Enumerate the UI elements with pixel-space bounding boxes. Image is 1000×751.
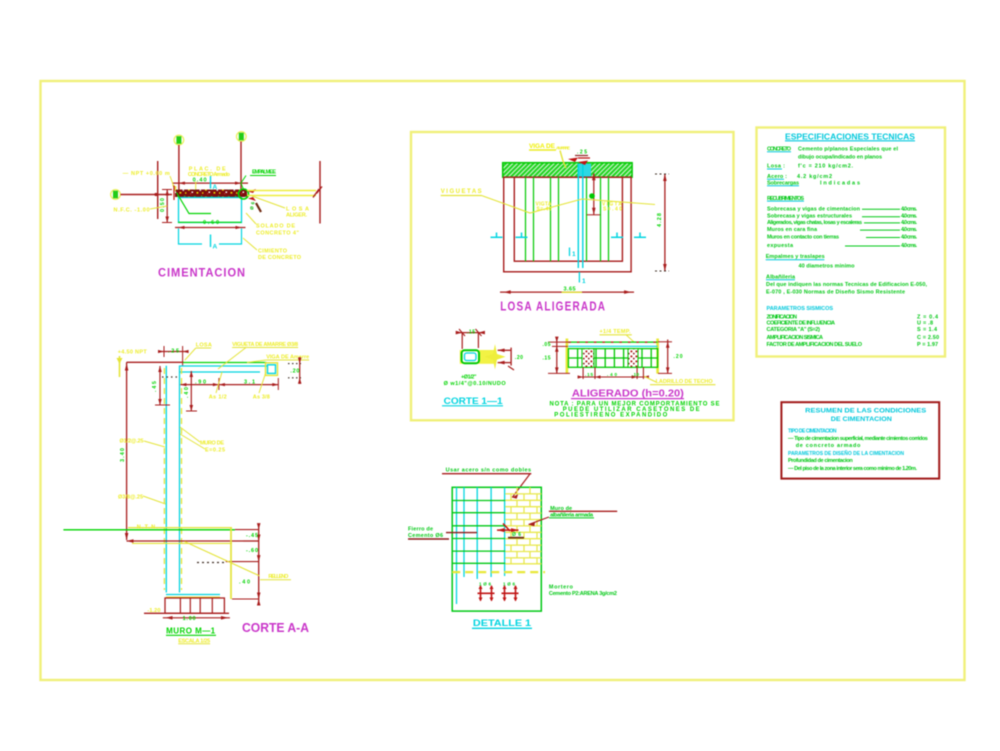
svg-text:1Ø6: 1Ø6 [503,582,515,587]
svg-text:.15: .15 [543,356,551,362]
footing outline with hatch [165,598,224,613]
svg-text:Profundidad de cimentacion: Profundidad de cimentacion [788,458,853,464]
svg-text:CONCRETO 4": CONCRETO 4" [256,231,299,237]
extension line right [319,161,321,224]
arrows at slab top (red) [568,158,578,163]
right level dimension column [258,528,260,602]
svg-text:Cemento p/planos Especiales: Cemento p/planos Especiales que el [798,147,898,153]
svg-text:1.00: 1.00 [183,616,196,622]
dots dashed beam bottom [162,376,180,378]
svg-text:1: 1 [582,278,586,285]
relleno diagonal (yellow) [185,542,260,576]
footing body (cyan) [179,198,242,223]
section tick marks (cyan) [491,233,647,238]
svg-text:VIGA DE: VIGA DE [529,143,556,150]
svg-text:DETALLE 1: DETALLE 1 [473,618,532,629]
svg-text:CORTE A-A: CORTE A-A [242,621,309,635]
svg-text:Mortero: Mortero [549,585,574,591]
svg-text:.45: .45 [152,381,158,392]
svg-text:Usar acero s/n como dobles: Usar acero s/n como dobles [446,468,531,474]
svg-text:A: A [213,244,218,251]
svg-text:+Ø1/2": +Ø1/2" [461,375,477,381]
losa detail frame (yellow) [411,132,734,420]
yellow star splice symbol [485,344,506,370]
svg-text:Ø w1/4"@0.10/NUDO: Ø w1/4"@0.10/NUDO [444,381,507,387]
svg-text:1Ø6: 1Ø6 [479,582,491,587]
right dimension (red) [664,174,666,271]
beam section at slab end [266,363,278,376]
svg-text:LOSA ALIGERADA: LOSA ALIGERADA [500,299,606,313]
svg-text:Fierro de: Fierro de [408,527,433,533]
svg-text:expuesta: expuesta [767,243,794,249]
grid bubble axis B (left) [111,190,121,200]
resumen frame (dark red) [781,402,939,478]
center dimension (red) [593,173,595,215]
brick wall (yellow) [505,487,541,564]
svg-text:.15: .15 [585,372,593,377]
right bracket dimension (red) [498,349,512,351]
svg-text:Muros en contacto con tierras: Muros en contacto con tierras [767,235,839,241]
wall width dimension [158,351,188,353]
svg-text:.20: .20 [674,354,683,360]
top hatched band (green) [503,163,632,178]
svg-text:ESPECIFICACIONES TECNICAS: ESPECIFICACIONES TECNICAS [785,132,916,141]
bottom dimension line [175,227,246,229]
svg-text:— NPT +0.00 m: — NPT +0.00 m [123,171,170,177]
wall cyan lines [165,366,167,593]
grid line from axis B [121,194,173,196]
slab lines extending right (yellow) [247,190,316,192]
horizontal dimension under slab [180,384,278,386]
wall arrows right of footing [248,189,256,193]
svg-text:4.0 cms.: 4.0 cms. [901,206,917,212]
svg-text:0.40: 0.40 [193,178,207,184]
slab cyan lines [179,365,267,367]
page border frame [41,81,965,680]
svg-text:RELLENO: RELLENO [268,574,289,580]
slab inner outline (red) [514,177,622,261]
extension line left [157,161,159,219]
svg-text:S=.40: S=.40 [537,207,552,213]
wall face labels (yellow) [180,427,200,442]
footing hatched top strip [175,190,247,198]
section line 1-1 (cyan) [577,164,579,269]
svg-text:S = 1.4: S = 1.4 [917,327,938,333]
svg-text:.40: .40 [239,580,250,586]
level flag symbol (yellow) [119,356,121,377]
svg-text:-.45: -.45 [246,533,258,539]
slab thickness detail right [288,363,301,365]
footing base line [144,612,229,614]
anchor detail center (red) [497,529,519,531]
svg-text:TIPO DE CIMENTACION: TIPO DE CIMENTACION [788,429,837,435]
anchor bar (dark red) [256,203,261,212]
svg-text:S=.40: S=.40 [603,207,622,213]
svg-text:N.T.N.: N.T.N. [137,524,158,530]
svg-text:-.60: -.60 [246,548,258,554]
grid bubble axis 2 [237,132,247,142]
leader wave (yellow) [482,196,656,214]
svg-text:PARAMETROS SISMICOS: PARAMETROS SISMICOS [767,306,834,312]
yellow vertical right of wall [230,528,232,599]
svg-text:Ø1/2@.25: Ø1/2@.25 [120,439,144,445]
svg-text:4.0 cms.: 4.0 cms. [901,243,917,249]
beam depth dimension v2 [190,371,192,411]
svg-text:Muros en cara fina: Muros en cara fina [767,227,818,233]
svg-text:+4.50 NPT: +4.50 NPT [118,350,148,356]
svg-text:Ø6: Ø6 [249,201,255,210]
svg-text:Sobrecasa y vigas estructurale: Sobrecasa y vigas estructurales [767,214,852,220]
mesh horizontals (green) [452,500,505,502]
svg-text:— Tipo de cimentacion superfic: — Tipo de cimentacion superficial, media… [788,436,928,442]
svg-text:.05: .05 [543,342,551,348]
svg-text:— Del piso de la zona interior: — Del piso de la zona interior sera como… [788,466,917,472]
cyan band segment in hatch [578,164,592,177]
svg-text:E=0.25: E=0.25 [205,448,225,454]
svg-text:AMPLIFICACION SISMICA: AMPLIFICACION SISMICA [767,335,824,341]
svg-text:ALIGER.: ALIGER. [286,213,307,219]
mesh verticals (cyan) [456,487,458,604]
svg-text:DE CONCRETO: DE CONCRETO [258,255,302,261]
svg-text:MURO M—1: MURO M—1 [166,627,216,636]
svg-text:4.0 cms.: 4.0 cms. [901,214,917,220]
left vertical dimension [166,190,168,223]
svg-text:FACTOR DE AMPLIFICACION DEL SU: FACTOR DE AMPLIFICACION DEL SUELO [767,342,863,348]
grid line from axis 2 [240,142,242,193]
svg-text:4.0 cms.: 4.0 cms. [901,227,917,233]
svg-text:.15: .15 [467,329,475,335]
svg-text:ALIGERADO (h=0.20): ALIGERADO (h=0.20) [572,389,684,400]
svg-text:CATEGORIA "A" (S=2): CATEGORIA "A" (S=2) [767,327,821,333]
section mark A top [210,176,212,189]
svg-text:As 3/8: As 3/8 [253,395,270,401]
svg-text:CIMIENTO: CIMIENTO [258,249,288,255]
end bars (yellow) [566,339,569,374]
svg-text:AMARRE: AMARRE [556,146,570,151]
svg-text:3.65: 3.65 [564,286,576,292]
section mark A bottom [210,235,212,248]
svg-text:COEFICIENTE DE INFLUENCIA: COEFICIENTE DE INFLUENCIA [767,320,836,326]
svg-text:Ø3/8@.25: Ø3/8@.25 [118,495,143,501]
svg-text:.40: .40 [607,372,617,377]
svg-text:f'c = 210 kg/cm2.: f'c = 210 kg/cm2. [798,164,853,170]
corte 1-1 top dimension [457,332,484,334]
bottom width dimensions [578,376,648,378]
leader to LOSA label [252,196,285,208]
brick joists (speckled) [582,349,594,368]
beam depth dimension v1 [159,366,161,405]
specifications frame (yellow) [757,128,946,357]
section bracket below footing (cyan) [179,229,203,245]
joist lines (green) [525,177,527,261]
svg-text:0.50: 0.50 [160,198,166,212]
svg-text:As 1/2: As 1/2 [209,395,227,401]
detalle frame (green) [452,487,541,611]
slab outer outline (red) [504,177,631,272]
svg-text:Del que indiquen las normas Te: Del que indiquen las normas Tecnicas de … [766,282,927,288]
lean concrete slope line (green) [177,193,212,214]
svg-text:de concreto armado: de concreto armado [796,443,861,449]
yellow line above ground [128,527,232,529]
dashed yellow line [452,571,545,573]
top corner red line [127,361,184,363]
svg-text:-1.20: -1.20 [147,608,160,614]
ground line NTN (green) [63,529,235,531]
svg-text:RESUMEN DE LAS CONDICIONES: RESUMEN DE LAS CONDICIONES [805,408,927,415]
svg-text:.40: .40 [184,387,190,398]
svg-text:CIMENTACION: CIMENTACION [158,268,246,280]
leaders to As labels (yellow) [216,372,222,393]
grid bubble axis 1 [174,135,184,145]
svg-text:4.0 cms.: 4.0 cms. [901,235,917,241]
svg-text:Sobrecasa y vigas de cimentaci: Sobrecasa y vigas de cimentacion [767,206,861,212]
bottom dimension (red) [500,291,634,293]
grid line from axis 1 [178,145,180,192]
right depth dimension [667,340,669,374]
svg-text:VIGUETAS: VIGUETAS [441,189,482,195]
svg-text:3.40: 3.40 [120,448,126,462]
svg-text:dibujo ocupa/indicado en plano: dibujo ocupa/indicado en planos [798,154,882,160]
svg-text:.25: .25 [577,150,587,156]
svg-text:A: A [213,184,218,191]
svg-text:.20: .20 [515,355,523,361]
label ladrillo hueco (yellow) [644,376,656,382]
svg-text:MURO DE: MURO DE [200,441,224,447]
svg-text:PARAMETROS DE DISEÑO DE LA CIM: PARAMETROS DE DISEÑO DE LA CIMENTACION [788,450,904,457]
svg-text:C = 2.50: C = 2.50 [917,335,939,341]
svg-text:E-070 , E-030 Normas de Diseño: E-070 , E-030 Normas de Diseño Sismo Res… [766,289,905,295]
svg-text:40 diametros minimo: 40 diametros minimo [799,263,856,269]
dot dash footing level [197,562,226,564]
break mark [313,187,322,198]
svg-text:U = .8: U = .8 [917,320,933,326]
svg-text:4.2 kg/cm2: 4.2 kg/cm2 [797,174,832,180]
wall rebar dashed (yellow) [163,368,165,590]
footing bottom rebar line [178,221,242,223]
svg-text:SOLADO DE: SOLADO DE [256,224,295,230]
svg-text:EMPALME E: EMPALME E [252,170,276,176]
svg-text:P = 1.97: P = 1.97 [917,342,938,348]
slab top line (green) [183,362,267,364]
svg-text:Indicadas: Indicadas [820,180,860,186]
section label 1 top (cyan) [569,248,571,257]
svg-text:N.F.C. -1.00: N.F.C. -1.00 [114,208,150,214]
svg-text:DE CIMENTACION: DE CIMENTACION [831,416,892,423]
corte 1-1 extension lines [461,333,463,349]
svg-text:1: 1 [572,251,576,258]
svg-text:Aligerados, vigas chatas, losa: Aligerados, vigas chatas, losas y escale… [767,220,862,226]
top dimension line [172,182,248,184]
svg-text:3.1: 3.1 [244,380,255,386]
svg-text:.10: .10 [632,372,639,377]
red level line [127,540,259,542]
svg-text:0.60: 0.60 [203,220,219,226]
svg-text:LADRILLO DE TECHO: LADRILLO DE TECHO [656,379,714,385]
svg-text:POLIESTIRENO EXPANDIDO: POLIESTIRENO EXPANDIDO [554,412,667,418]
joist section box (green) [462,350,479,363]
casetones grid (green) [568,349,657,368]
column circle (green) [239,189,249,199]
svg-text:Cemento P2:ARENA 3g/cm2: Cemento P2:ARENA 3g/cm2 [549,591,617,597]
footing width dimension [163,617,230,619]
dowel symbols (red) [478,586,519,601]
slab topping lines [568,341,657,343]
left depth dimension [556,340,558,374]
long left dimension line [126,362,128,540]
svg-text:.20: .20 [290,369,299,375]
svg-text:+1/4 TEMP.: +1/4 TEMP. [600,329,631,335]
svg-text:CORTE 1—1: CORTE 1—1 [444,396,503,406]
yellow slab strip [460,350,495,364]
section label 1 bottom (cyan) [578,272,580,283]
svg-text:4.28: 4.28 [657,213,663,227]
svg-text:4.0 cms.: 4.0 cms. [901,220,917,226]
footing top cyan line [166,594,220,596]
